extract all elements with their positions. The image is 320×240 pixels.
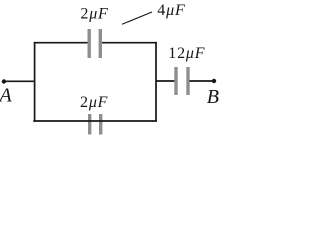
svg-text:4μF: 4μF [157, 2, 185, 19]
svg-text:2μF: 2μF [80, 94, 108, 111]
leader line to 4uF annotation [122, 12, 152, 24]
wire: C3 right plate to node B [190, 80, 215, 82]
svg-text:12μF: 12μF [168, 45, 205, 62]
node A (terminal dot) [2, 79, 6, 83]
wire: loop left side [34, 42, 36, 122]
wire: loop right side [155, 42, 157, 122]
capacitor C2 2uF (bottom branch) plates [88, 114, 102, 135]
wire: loop top edge left segment [34, 42, 88, 44]
wire: loop top edge right segment [102, 42, 157, 44]
node B (terminal dot) [212, 79, 216, 83]
svg-text:B: B [207, 86, 219, 108]
capacitor C3 12uF (series) plates [174, 67, 189, 95]
svg-text:2μF: 2μF [80, 6, 108, 23]
wire: loop right side to C3 left plate [156, 80, 175, 82]
wire: left lead from node A to loop [4, 80, 35, 82]
svg-text:A: A [0, 85, 13, 107]
capacitor C1 2uF (top branch) plates [88, 29, 103, 58]
wire: loop bottom edge (continuous through lower capacitor) [33, 120, 156, 122]
